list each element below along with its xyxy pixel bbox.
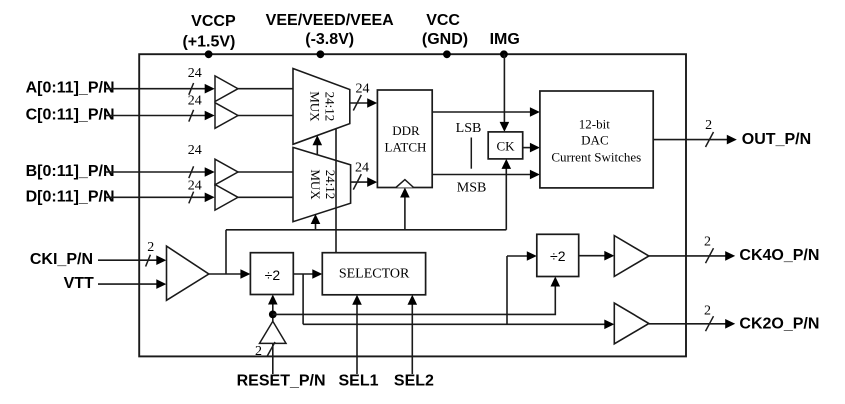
bus slash CKI bbox=[146, 255, 151, 267]
wire SEL1 bbox=[356, 304, 358, 374]
bus slash C bbox=[189, 110, 194, 122]
wire buffer A to MUX1 bbox=[238, 88, 294, 90]
svg-text:LATCH: LATCH bbox=[385, 140, 427, 155]
svg-text:2: 2 bbox=[705, 118, 712, 133]
svg-text:CK: CK bbox=[496, 138, 515, 153]
svg-text:VCC: VCC bbox=[426, 12, 460, 29]
wire CKI buffer out to divider bbox=[209, 273, 242, 275]
bus slash CK2O bbox=[706, 316, 714, 331]
divider U7 (÷2) bbox=[250, 253, 293, 295]
svg-text:A[0:11]_P/N: A[0:11]_P/N bbox=[26, 80, 115, 97]
svg-text:DAC: DAC bbox=[581, 133, 608, 148]
svg-text:(+1.5V): (+1.5V) bbox=[182, 33, 235, 50]
buffer A bbox=[215, 76, 238, 102]
SELECTOR box U9 bbox=[322, 253, 425, 295]
svg-text:VCCP: VCCP bbox=[191, 13, 236, 30]
CK2O buffer U12 bbox=[614, 303, 649, 344]
wire divider U8 to CK4O buffer bbox=[579, 255, 606, 257]
wire rail to MUX2 select bbox=[315, 223, 317, 230]
svg-text:B[0:11]_P/N: B[0:11]_P/N bbox=[26, 163, 115, 180]
svg-text:24: 24 bbox=[188, 93, 202, 108]
wire B input bbox=[106, 171, 206, 173]
DAC U5 12-bit DAC current switches bbox=[540, 91, 653, 188]
svg-text:(-3.8V): (-3.8V) bbox=[305, 31, 354, 48]
wire IMG to CK bbox=[503, 54, 505, 123]
svg-text:2: 2 bbox=[704, 234, 711, 249]
wire DDR LSB out bbox=[432, 111, 531, 113]
wire buffer C to MUX1 bbox=[238, 115, 294, 117]
wire C input bbox=[106, 115, 206, 117]
svg-text:D[0:11]_P/N: D[0:11]_P/N bbox=[26, 188, 115, 205]
DDR clock chevron bbox=[396, 180, 414, 188]
wire clock rail bbox=[226, 229, 506, 231]
wire divider out tap down bbox=[302, 274, 304, 324]
CK4O buffer U11 bbox=[614, 236, 649, 277]
wire CK2O output bbox=[649, 323, 726, 325]
wire buffer D to MUX2 bbox=[238, 196, 294, 198]
wire reset buffer to divider U7 bbox=[272, 303, 274, 321]
svg-text:SEL2: SEL2 bbox=[394, 373, 434, 390]
power label VEE/VEED/VEEA bbox=[266, 12, 394, 48]
wire DDR MSB out bbox=[432, 174, 531, 176]
wire select line to SELECTOR bbox=[335, 129, 337, 253]
power dot VEE bbox=[317, 50, 325, 58]
bus slash MUX2 out bbox=[353, 174, 361, 190]
svg-text:C[0:11]_P/N: C[0:11]_P/N bbox=[26, 107, 115, 124]
svg-text:VEE/VEED/VEEA: VEE/VEED/VEEA bbox=[266, 12, 394, 29]
mux U2 24:12 MUX (bottom) bbox=[293, 147, 351, 221]
wire reset branch to divider U8 bbox=[273, 285, 556, 314]
svg-text:VTT: VTT bbox=[64, 275, 94, 292]
node dot IMG bbox=[500, 50, 508, 58]
wire rail to DDR clock bbox=[404, 196, 406, 230]
svg-text:SEL1: SEL1 bbox=[338, 373, 378, 390]
wire MUX1 to DDR latch bbox=[350, 102, 369, 104]
svg-text:MUX: MUX bbox=[308, 91, 323, 122]
bus slash MUX1 out bbox=[353, 95, 361, 111]
svg-text:MSB: MSB bbox=[457, 180, 487, 195]
svg-text:Current Switches: Current Switches bbox=[551, 150, 641, 165]
svg-text:CK4O_P/N: CK4O_P/N bbox=[739, 247, 819, 264]
svg-text:24: 24 bbox=[355, 161, 369, 176]
power label VCC (GND) bbox=[422, 12, 468, 48]
wire CK4O output bbox=[649, 255, 726, 257]
wire CK to DAC bbox=[523, 147, 531, 149]
power label VCCP bbox=[182, 13, 236, 50]
CK box U4 bbox=[488, 132, 523, 159]
svg-text:2: 2 bbox=[147, 240, 154, 255]
power dot VCC bbox=[443, 50, 451, 58]
wire CKI input bbox=[98, 259, 158, 261]
wire VTT input bbox=[98, 283, 158, 285]
wire clock rail riser bbox=[225, 230, 227, 274]
chip outline bbox=[139, 54, 686, 356]
bus slash CK4O bbox=[706, 248, 714, 263]
svg-text:LSB: LSB bbox=[456, 121, 482, 136]
bus slash RESET bbox=[267, 342, 275, 357]
svg-text:(GND): (GND) bbox=[422, 31, 468, 48]
wire divided clock line bbox=[303, 323, 605, 325]
power dot VCCP bbox=[205, 50, 213, 58]
wire divided clock to divider U8 bbox=[506, 256, 508, 324]
svg-text:CKI_P/N: CKI_P/N bbox=[30, 251, 93, 268]
wire D input bbox=[106, 196, 206, 198]
svg-text:24: 24 bbox=[188, 143, 202, 158]
svg-text:÷2: ÷2 bbox=[550, 248, 566, 264]
svg-text:MUX: MUX bbox=[308, 169, 323, 200]
clock input buffer U6 bbox=[167, 246, 209, 300]
wire MUX2 to MUX1 select bbox=[316, 144, 318, 156]
bus slash OUT bbox=[706, 132, 714, 147]
wire DAC output OUT bbox=[653, 139, 728, 141]
LSB/MSB range tick bbox=[470, 138, 472, 169]
DDR latch U3 bbox=[377, 90, 432, 188]
svg-text:2: 2 bbox=[255, 344, 262, 359]
wire reset input bbox=[272, 343, 274, 374]
wire A input bbox=[106, 88, 206, 90]
reset buffer U10 bbox=[260, 321, 287, 343]
svg-text:2: 2 bbox=[704, 304, 711, 319]
svg-text:OUT_P/N: OUT_P/N bbox=[742, 131, 811, 148]
buffer D bbox=[215, 185, 238, 211]
svg-text:RESET_P/N: RESET_P/N bbox=[237, 373, 326, 390]
svg-text:24: 24 bbox=[356, 82, 370, 97]
wire buffer B to MUX2 bbox=[238, 171, 294, 173]
svg-text:24: 24 bbox=[188, 179, 202, 194]
svg-text:12-bit: 12-bit bbox=[579, 116, 610, 131]
svg-text:24: 24 bbox=[188, 66, 202, 81]
divider U8 (÷2) bbox=[537, 234, 579, 276]
svg-text:24:12: 24:12 bbox=[323, 92, 338, 122]
svg-text:CK2O_P/N: CK2O_P/N bbox=[739, 316, 819, 333]
svg-text:SELECTOR: SELECTOR bbox=[339, 267, 410, 282]
wire SEL2 bbox=[411, 304, 413, 374]
bus slash A bbox=[189, 83, 194, 95]
mux U1 24:12 MUX (top) bbox=[293, 69, 350, 145]
wire MUX2 to DDR latch bbox=[351, 181, 369, 183]
buffer C bbox=[215, 103, 238, 129]
svg-text:DDR: DDR bbox=[392, 123, 420, 138]
svg-text:÷2: ÷2 bbox=[265, 267, 281, 283]
node dot reset branch bbox=[269, 311, 277, 319]
buffer B bbox=[215, 159, 238, 185]
bus slash B bbox=[189, 166, 194, 178]
svg-text:IMG: IMG bbox=[490, 31, 520, 48]
wire divider U7 out to SELECTOR bbox=[293, 273, 313, 275]
wire rail to CK box bbox=[505, 168, 507, 230]
bus slash D bbox=[189, 192, 194, 204]
